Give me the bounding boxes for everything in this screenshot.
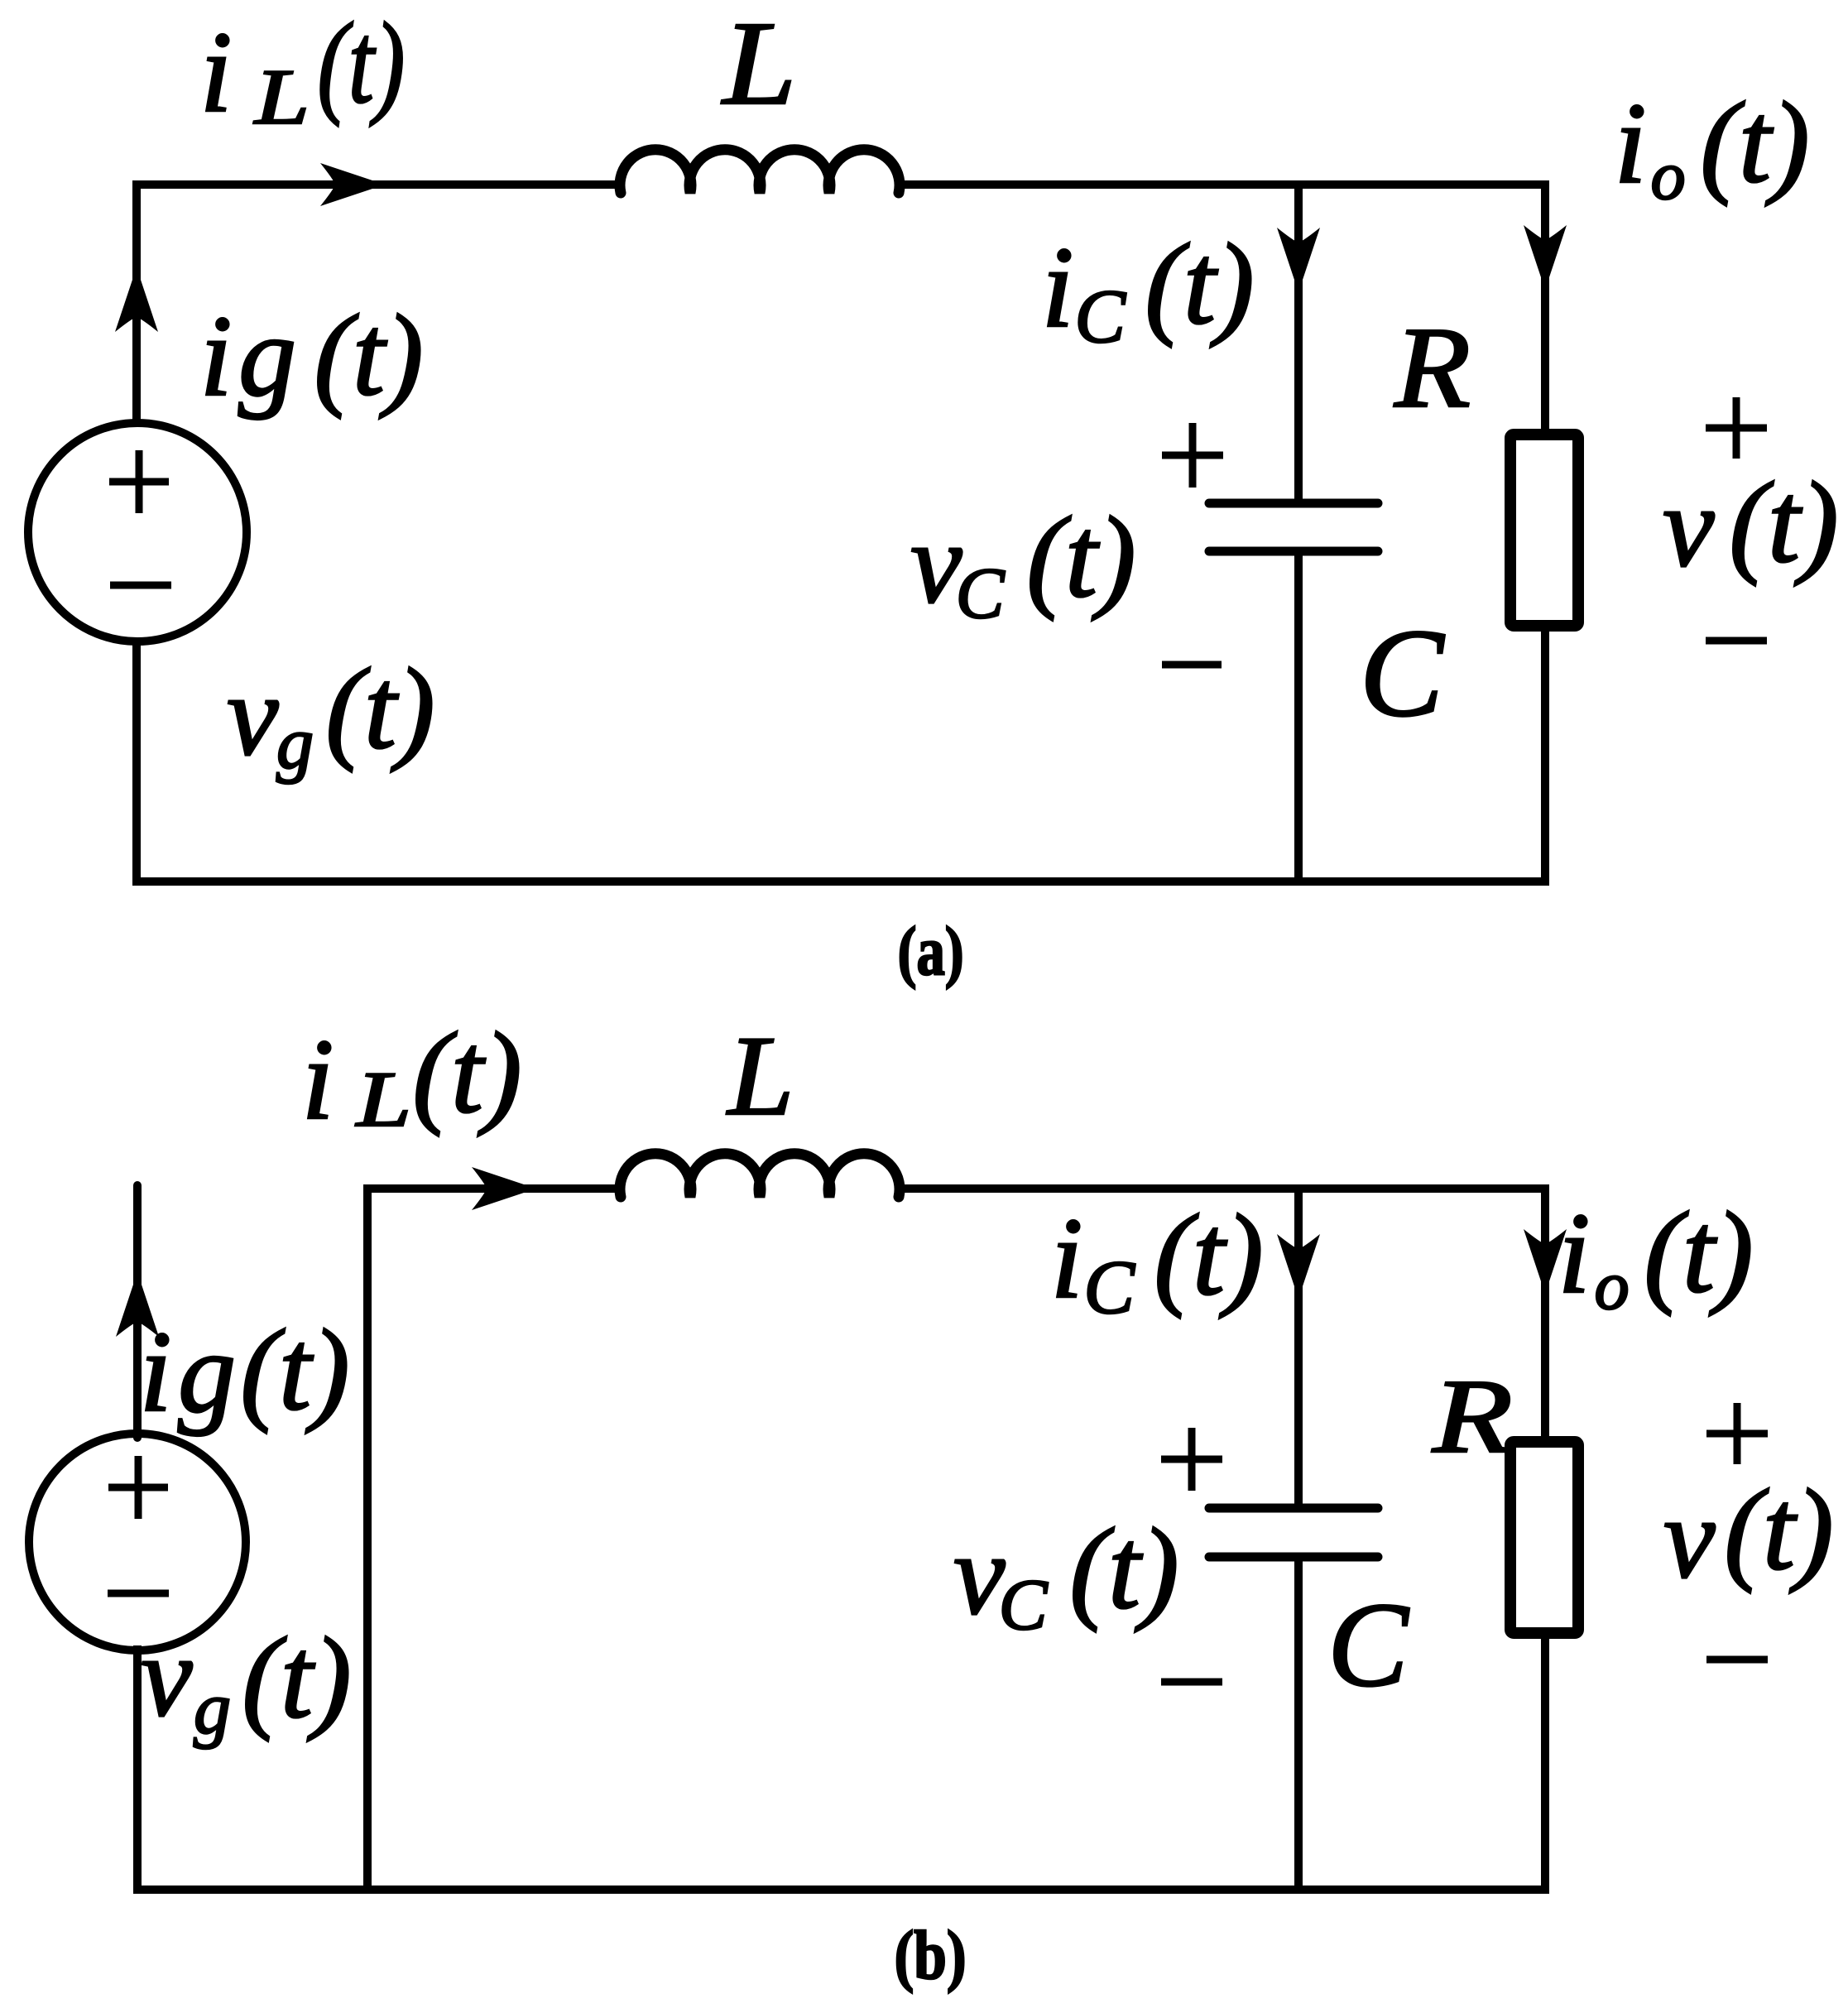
capacitor plus label (a) — [1162, 423, 1223, 488]
svg-text:C: C — [1075, 274, 1127, 358]
wire: capacitor branch lower (b) — [1294, 1557, 1303, 1890]
svg-text:i: i — [1051, 1194, 1083, 1323]
svg-text:(t): (t) — [1644, 1189, 1753, 1317]
arrow i_C(t) (a) — [1277, 228, 1320, 292]
label (a) — [898, 913, 964, 990]
wire: capacitor branch lower (a) — [1294, 551, 1303, 882]
svg-text:(t): (t) — [242, 1614, 351, 1742]
svg-text:(t): (t) — [1729, 459, 1838, 587]
svg-text:C: C — [956, 554, 1006, 634]
wire: source stub (b) — [133, 1185, 142, 1438]
svg-text:(t): (t) — [325, 645, 434, 773]
resistor R (b) body — [1510, 1442, 1578, 1633]
svg-text:g: g — [194, 1668, 231, 1750]
label vg(t) (a) — [227, 645, 434, 785]
source minus (b) — [108, 1590, 169, 1597]
svg-text:C: C — [1360, 603, 1445, 742]
wire: top-right segment (a) — [899, 180, 1549, 189]
source plus (a) — [109, 450, 169, 513]
label i_C(t) (a) — [1042, 220, 1255, 358]
label i_o(t) (a) — [1615, 79, 1810, 214]
output minus label (b) — [1706, 1656, 1768, 1664]
wire: resistor branch lower (a) — [1541, 626, 1549, 886]
svg-text:(t): (t) — [1145, 220, 1254, 348]
svg-text:o: o — [1595, 1247, 1630, 1324]
capacitor C (a) plates — [1209, 503, 1378, 551]
label L (b) — [726, 1012, 794, 1139]
wire: resistor branch lower (b) — [1541, 1633, 1549, 1894]
svg-text:L: L — [726, 1012, 794, 1139]
svg-text:g: g — [276, 703, 314, 785]
label ig(t) (b) — [140, 1306, 350, 1437]
wire: resistor branch upper (a) — [1541, 180, 1549, 435]
svg-text:(t): (t) — [412, 1009, 521, 1137]
svg-text:C: C — [1084, 1245, 1136, 1329]
capacitor plus label (b) — [1161, 1428, 1222, 1491]
svg-text:i: i — [302, 1016, 334, 1144]
svg-text:v: v — [227, 651, 279, 780]
capacitor C (b) plates — [1209, 1508, 1378, 1557]
svg-text:R: R — [1394, 304, 1471, 432]
svg-text:v: v — [141, 1612, 193, 1741]
arrow i_C(t) (b) — [1277, 1234, 1320, 1299]
svg-text:(t): (t) — [1026, 493, 1135, 622]
svg-text:L: L — [355, 1055, 411, 1143]
svg-text:(a): (a) — [898, 913, 964, 990]
svg-text:C: C — [999, 1565, 1049, 1645]
svg-text:L: L — [253, 53, 310, 141]
arrow ig(t) (b) — [116, 1272, 159, 1337]
svg-text:C: C — [1327, 1578, 1409, 1712]
wire: capacitor branch upper (a) — [1294, 185, 1303, 503]
svg-text:g: g — [178, 1309, 236, 1437]
svg-text:v: v — [1663, 463, 1715, 591]
output plus label (b) — [1706, 1403, 1768, 1464]
svg-text:o: o — [1651, 137, 1686, 214]
wire: bottom (a) — [132, 877, 1549, 886]
label v_C(t) (b) — [953, 1505, 1178, 1645]
label ig(t) (a) — [200, 291, 424, 420]
svg-text:i: i — [140, 1308, 172, 1436]
label i_L(t) (b) — [302, 1009, 522, 1144]
svg-text:i: i — [200, 8, 233, 137]
svg-text:(t): (t) — [1069, 1505, 1178, 1633]
wire: left vertical upper (a) — [132, 180, 141, 427]
label v(t) (b) — [1663, 1466, 1833, 1602]
voltage source vg circle (a) — [28, 423, 247, 641]
wire: capacitor branch upper (b) — [1294, 1189, 1303, 1508]
resistor R (a) body — [1510, 435, 1578, 626]
arrow i_o(t) (a) — [1524, 225, 1567, 290]
label (b) — [895, 1917, 967, 1994]
capacitor minus label (a) — [1162, 661, 1222, 669]
svg-text:(t): (t) — [314, 291, 423, 420]
wire: left vertical lower (a) — [132, 637, 141, 882]
svg-text:i: i — [200, 292, 233, 420]
svg-text:v: v — [1663, 1474, 1716, 1602]
label i_o(t) (b) — [1558, 1189, 1754, 1324]
svg-text:i: i — [1615, 79, 1647, 208]
arrow i_L(t) (a) — [320, 163, 385, 206]
svg-text:(t): (t) — [1154, 1191, 1263, 1319]
label v_C(t) (a) — [910, 493, 1135, 634]
wire: bottom (b) — [133, 1886, 1549, 1894]
label i_C(t) (b) — [1051, 1191, 1264, 1329]
label L (a) — [721, 0, 796, 130]
svg-text:(t): (t) — [317, 0, 405, 127]
svg-text:(b): (b) — [895, 1917, 967, 1994]
label R (b) — [1432, 1357, 1513, 1475]
inductor L (b) — [620, 1154, 900, 1197]
output minus label (a) — [1706, 637, 1767, 645]
svg-text:i: i — [1042, 223, 1074, 352]
label v(t) (a) — [1663, 459, 1838, 591]
output plus label (a) — [1706, 397, 1767, 459]
label i_L(t) (a) — [200, 0, 406, 141]
wire: inner left vertical (b) — [363, 1184, 372, 1890]
wire: top-left segment (a) — [137, 180, 621, 189]
svg-text:(t): (t) — [240, 1306, 349, 1434]
label R (a) — [1394, 304, 1471, 432]
label vg(t) (b) — [141, 1612, 351, 1750]
label C (b) — [1327, 1578, 1409, 1712]
svg-text:R: R — [1432, 1357, 1513, 1475]
svg-text:(t): (t) — [1724, 1466, 1833, 1594]
arrow ig(t) (a) — [115, 267, 158, 332]
arrow i_L(t) (b) — [472, 1167, 536, 1210]
svg-text:(t): (t) — [1700, 79, 1809, 207]
inductor L (a) — [620, 150, 900, 193]
capacitor minus label (b) — [1161, 1679, 1222, 1686]
svg-text:i: i — [1558, 1189, 1591, 1318]
svg-text:g: g — [238, 292, 296, 420]
svg-text:L: L — [721, 0, 796, 130]
source plus (b) — [108, 1456, 168, 1519]
label C (a) — [1360, 603, 1445, 742]
wire: resistor branch upper (b) — [1541, 1184, 1549, 1442]
wire: top segment left (b) — [367, 1184, 621, 1193]
source minus (a) — [110, 582, 171, 589]
wire: source lower (b) — [133, 1645, 142, 1890]
arrow i_o(t) (b) — [1524, 1229, 1567, 1294]
wire: top segment right (b) — [899, 1184, 1549, 1193]
voltage source vg circle (b) — [29, 1434, 246, 1650]
